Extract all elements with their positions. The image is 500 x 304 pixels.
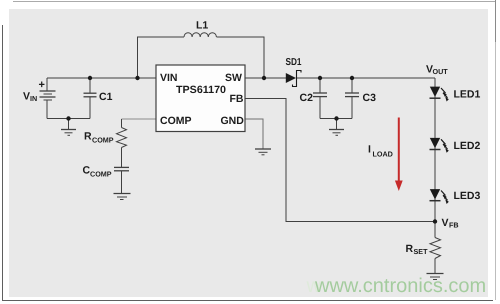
svg-text:C2: C2 bbox=[300, 92, 314, 104]
wire C2 bottom to C3 bottom bbox=[320, 118, 352, 120]
svg-text:R: R bbox=[406, 243, 414, 255]
svg-text:LOAD: LOAD bbox=[373, 150, 393, 159]
wire SW pin to diode bbox=[245, 77, 286, 79]
node junction dot L1 branch bbox=[135, 76, 139, 80]
wire FB pin run bbox=[245, 99, 435, 222]
page frame bottom line bbox=[2, 300, 493, 302]
svg-text:COMP: COMP bbox=[160, 115, 192, 127]
svg-text:COMP: COMP bbox=[90, 170, 112, 179]
wire bottom rail battery to C1 bbox=[47, 118, 90, 120]
svg-text:I: I bbox=[368, 144, 371, 156]
svg-text:FB: FB bbox=[449, 221, 459, 230]
svg-text:SD1: SD1 bbox=[286, 57, 302, 68]
svg-text:VIN: VIN bbox=[160, 72, 178, 84]
svg-text:C1: C1 bbox=[99, 91, 113, 103]
label V_IN bbox=[23, 91, 37, 104]
LED1 symbol bbox=[430, 87, 449, 102]
label V_OUT bbox=[426, 64, 448, 77]
svg-text:LED1: LED1 bbox=[454, 89, 481, 101]
resistor R_SET bbox=[430, 222, 441, 274]
node junction dot VIN rail / C1 bbox=[88, 76, 92, 80]
ground (C_COMP) bbox=[114, 194, 131, 200]
svg-text:+: + bbox=[39, 79, 45, 91]
node junction dot SW bbox=[262, 76, 266, 80]
resistor R_COMP bbox=[117, 119, 127, 167]
label V_FB bbox=[442, 217, 459, 230]
page frame left line bbox=[2, 25, 4, 301]
capacitor C1 bbox=[84, 78, 97, 119]
svg-text:IN: IN bbox=[30, 94, 37, 103]
svg-text:C3: C3 bbox=[363, 92, 377, 104]
ground (GND pin) bbox=[255, 149, 271, 155]
capacitor C_COMP bbox=[114, 167, 129, 193]
wire top rail VIN node bbox=[47, 77, 156, 79]
ground (R_SET) bbox=[427, 274, 444, 280]
LED2 symbol bbox=[430, 138, 449, 153]
node junction dot C3 bbox=[350, 76, 354, 80]
svg-text:COMP: COMP bbox=[92, 136, 114, 145]
node junction dot C2 C3 ground bbox=[334, 116, 338, 120]
svg-text:GND: GND bbox=[221, 115, 245, 127]
node junction dot C2 bbox=[318, 76, 322, 80]
node junction dot battery ground bbox=[66, 116, 70, 120]
svg-text:LED2: LED2 bbox=[454, 140, 481, 152]
wire COMP pin to R_COMP bbox=[122, 118, 157, 120]
svg-text:SET: SET bbox=[414, 247, 429, 256]
ground (battery/C1) bbox=[61, 119, 76, 136]
wire GND pin bbox=[245, 119, 263, 149]
label R_COMP bbox=[84, 131, 114, 145]
svg-text:SW: SW bbox=[225, 72, 242, 84]
diode SD1 bbox=[286, 71, 301, 87]
inductor L1 bbox=[184, 33, 216, 37]
page frame top line bbox=[13, 1, 495, 3]
svg-text:FB: FB bbox=[230, 93, 244, 105]
label I_LOAD bbox=[368, 144, 393, 159]
svg-text:V: V bbox=[442, 217, 449, 229]
label C_COMP bbox=[83, 165, 112, 179]
svg-text:OUT: OUT bbox=[433, 67, 449, 76]
page frame right line bbox=[495, 0, 497, 300]
wire L1 to SW node bbox=[217, 37, 265, 78]
arrow I_LOAD bbox=[395, 118, 403, 192]
LED3 symbol bbox=[430, 189, 449, 204]
wire L1 branch up bbox=[138, 37, 185, 78]
wire VOUT down through LED chain to VFB bbox=[434, 78, 436, 222]
svg-text:TPS61170: TPS61170 bbox=[176, 84, 226, 96]
svg-text:LED3: LED3 bbox=[454, 190, 481, 202]
svg-text:R: R bbox=[84, 131, 92, 143]
ground (C2 C3) bbox=[329, 119, 344, 136]
svg-text:V: V bbox=[23, 91, 30, 103]
svg-text:www.cntronics.com: www.cntronics.com bbox=[314, 275, 486, 297]
svg-text:L1: L1 bbox=[196, 20, 208, 32]
node junction dot VFB bbox=[433, 219, 437, 223]
op-amp ic U1 TPS61170 box bbox=[156, 65, 245, 132]
capacitor C3 bbox=[345, 78, 359, 119]
label R_SET bbox=[406, 243, 429, 256]
capacitor C2 bbox=[313, 78, 327, 119]
battery V_IN bbox=[40, 78, 56, 119]
wire diode to VOUT corner bbox=[297, 77, 436, 79]
